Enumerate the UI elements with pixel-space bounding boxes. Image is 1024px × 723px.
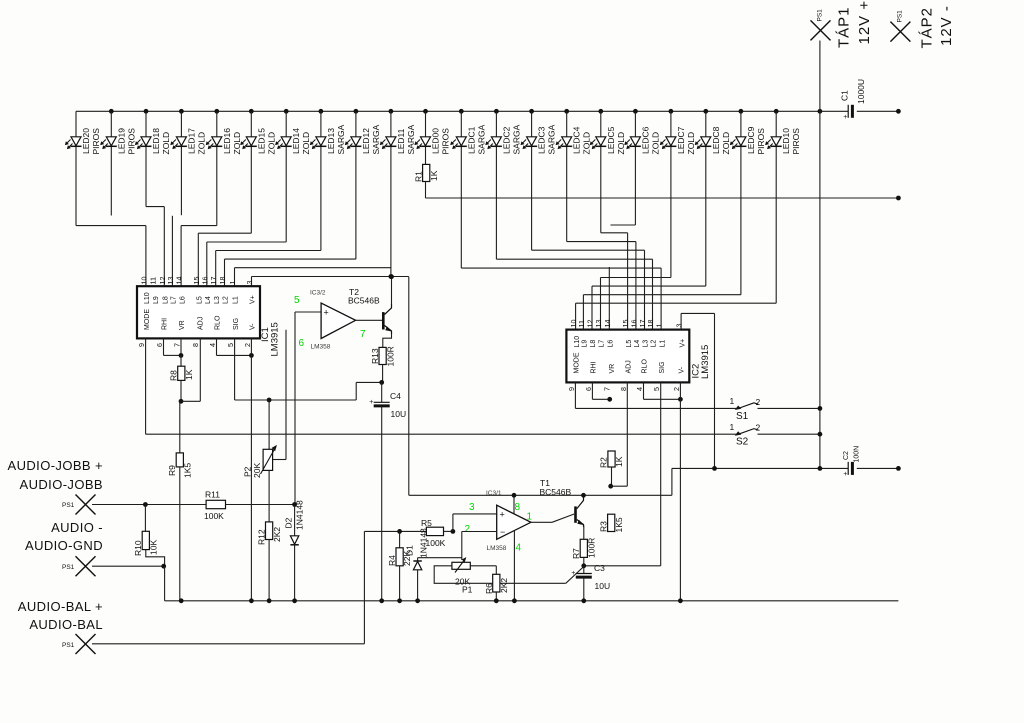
svg-text:LED11: LED11	[396, 128, 406, 154]
svg-text:RLO: RLO	[215, 315, 222, 330]
wire C4 to ground	[381, 406, 383, 601]
node R8-R9-ADJ	[179, 399, 184, 404]
wire LED17 column	[180, 111, 182, 215]
svg-text:D2: D2	[284, 517, 294, 528]
wire P1 right to R6	[470, 566, 496, 575]
svg-text:LEDC1: LEDC1	[466, 126, 476, 154]
svg-text:3: 3	[675, 324, 684, 328]
node D2 junction	[292, 502, 297, 507]
wire IC1 RLO jog	[217, 338, 250, 355]
svg-text:ZOLD: ZOLD	[686, 132, 696, 155]
svg-text:L8: L8	[163, 296, 170, 304]
svg-text:100N: 100N	[854, 446, 861, 463]
resistor R13 100R	[370, 346, 396, 366]
svg-text:7: 7	[603, 387, 612, 391]
svg-text:20K: 20K	[252, 463, 262, 478]
svg-text:AUDIO-GND: AUDIO-GND	[25, 538, 103, 553]
svg-text:10U: 10U	[595, 581, 611, 591]
wire R13 bottom	[382, 365, 384, 383]
LED LED15 ZOLD	[240, 128, 276, 155]
LED LED00 PIROS	[414, 128, 450, 155]
resistor R6 2K2	[484, 574, 509, 594]
svg-text:SARGA: SARGA	[476, 124, 486, 154]
svg-text:7: 7	[360, 329, 366, 340]
resistor R10 10K	[133, 531, 159, 556]
svg-text:AUDIO-BAL: AUDIO-BAL	[29, 617, 103, 632]
wire C3 top	[583, 566, 585, 574]
resistor R2 1K	[599, 451, 625, 468]
wire bal divider line	[364, 530, 453, 532]
label AUDIO-GND	[25, 520, 103, 553]
svg-text:10U: 10U	[391, 409, 407, 419]
svg-text:LEDC2: LEDC2	[501, 126, 511, 154]
svg-text:L3: L3	[643, 340, 650, 348]
transistor T2 BC546B	[348, 287, 392, 334]
svg-text:L8: L8	[590, 340, 597, 348]
svg-text:+: +	[369, 399, 373, 406]
wire LED16 column	[216, 111, 218, 225]
svg-text:1K5: 1K5	[614, 517, 624, 532]
svg-text:8: 8	[515, 502, 521, 513]
svg-text:100K: 100K	[204, 511, 224, 521]
svg-text:LEDC4: LEDC4	[572, 126, 582, 154]
wire ADJ jog IC1	[181, 338, 200, 401]
svg-text:ADJ: ADJ	[198, 317, 205, 330]
diode D1 1N4148	[405, 528, 429, 570]
node R13-C4-SIG	[379, 380, 384, 385]
wire LED10 column	[775, 111, 777, 303]
wire C3 to ground	[583, 577, 585, 600]
resistor R11 100K	[204, 490, 226, 522]
svg-text:13: 13	[594, 320, 603, 328]
svg-text:13: 13	[166, 277, 175, 285]
svg-text:RHI: RHI	[591, 361, 598, 373]
svg-text:LM358: LM358	[311, 344, 331, 351]
svg-text:18: 18	[218, 277, 227, 285]
resistor R8 1K	[169, 366, 195, 381]
diode D2 1N4148	[284, 500, 305, 545]
svg-text:5: 5	[226, 343, 235, 347]
wire IC1 pin14 riser	[181, 226, 217, 287]
wire IC1 pin16 riser	[207, 242, 286, 286]
svg-text:AUDIO-BAL +: AUDIO-BAL +	[18, 599, 103, 614]
svg-text:6: 6	[299, 338, 305, 349]
wire LEDC7 column	[670, 111, 672, 277]
svg-text:R10: R10	[133, 540, 143, 556]
wire IC1 pin15 riser	[198, 233, 251, 286]
svg-text:5: 5	[294, 295, 300, 306]
wire IC1 V+ pin3	[252, 277, 409, 287]
node R5 right	[451, 529, 456, 534]
wire IC2 SIG line	[584, 382, 661, 565]
wire audio-gnd line	[92, 565, 165, 567]
LED LED16 ZOLD	[206, 128, 242, 155]
svg-text:RHI: RHI	[162, 318, 169, 330]
svg-text:V-: V-	[679, 366, 686, 373]
svg-text:L4: L4	[205, 296, 212, 304]
svg-text:PIROS: PIROS	[791, 128, 801, 155]
svg-text:LED10: LED10	[781, 128, 791, 154]
svg-text:AUDIO -: AUDIO -	[51, 520, 103, 535]
wire TAP1 +12V vertical	[819, 41, 821, 469]
capacitor C2 100N	[843, 446, 861, 478]
svg-text:9: 9	[567, 387, 576, 391]
wire R12 to ground	[268, 540, 270, 601]
svg-text:4: 4	[208, 343, 217, 347]
svg-text:10K: 10K	[149, 540, 159, 555]
svg-text:2K2: 2K2	[272, 527, 282, 542]
svg-text:L2: L2	[223, 296, 230, 304]
svg-text:L1: L1	[659, 340, 666, 348]
svg-text:R2: R2	[599, 457, 609, 468]
svg-text:12V -: 12V -	[938, 5, 955, 46]
potentiometer P2 20K	[243, 445, 277, 478]
node IC1 RHI-VR	[179, 353, 184, 358]
svg-text:R13: R13	[370, 348, 380, 364]
wire P1 left feedback	[434, 566, 584, 584]
wire IC1 pin10 riser	[76, 226, 146, 287]
svg-text:PIROS: PIROS	[756, 128, 766, 155]
LED LEDC9 PIROS	[730, 126, 766, 154]
LED LED13 SARGA	[310, 124, 346, 154]
svg-text:14: 14	[603, 320, 612, 328]
wire V+ vertical x409	[408, 277, 410, 496]
wire R2 bottom	[611, 467, 613, 486]
node top bus junctions	[109, 109, 822, 114]
wire T1 emitter to R7	[583, 526, 585, 540]
svg-text:7: 7	[173, 343, 182, 347]
svg-text:6: 6	[584, 387, 593, 391]
resistor R1 1K	[414, 164, 440, 182]
svg-text:LM358: LM358	[487, 545, 507, 552]
LED LED10 PIROS	[765, 128, 801, 155]
node ground rail junctions	[179, 598, 683, 603]
svg-text:L6: L6	[608, 340, 615, 348]
svg-text:LM3915: LM3915	[700, 345, 711, 379]
svg-text:PIROS: PIROS	[126, 128, 136, 155]
wire IC2 V- to ground	[679, 382, 681, 600]
wire IC2 pin14 riser	[609, 225, 635, 330]
svg-text:LED00: LED00	[431, 128, 441, 154]
node R7-C3-SIG2	[581, 563, 586, 568]
svg-text:SARGA: SARGA	[406, 124, 416, 154]
label IC3/1	[486, 490, 502, 497]
resistor R12 2K2	[257, 522, 283, 545]
svg-text:2: 2	[243, 343, 252, 347]
wire op1 output	[531, 514, 574, 522]
wire LEDC6 column	[634, 111, 636, 225]
wire LED20 column	[75, 111, 77, 225]
svg-text:P2: P2	[243, 466, 253, 477]
wire R1 to line2	[425, 182, 427, 199]
wire IC2 pin15 riser	[601, 233, 628, 330]
wire IC2 pin11 riser	[583, 295, 741, 330]
wire V+ line y468	[672, 467, 899, 469]
svg-text:100K: 100K	[426, 538, 446, 548]
svg-text:PIROS: PIROS	[91, 128, 101, 155]
svg-text:BC546B: BC546B	[348, 296, 380, 306]
svg-text:R3: R3	[599, 521, 609, 532]
wire op1 -input	[462, 532, 497, 561]
wire op1 power bottom	[513, 531, 515, 601]
potentiometer P1 20K	[452, 557, 473, 594]
svg-text:L5: L5	[197, 296, 204, 304]
svg-text:V-: V-	[250, 323, 257, 330]
svg-text:R6: R6	[484, 583, 494, 594]
capacitor C3 10U	[571, 563, 610, 591]
svg-text:VR: VR	[179, 320, 186, 330]
LED driver IC2 LM3915	[566, 320, 711, 392]
LED LEDC5 ZOLD	[590, 126, 626, 154]
svg-text:R1: R1	[414, 171, 424, 182]
wire R6 to ground	[495, 592, 497, 601]
svg-text:1000U: 1000U	[856, 79, 866, 104]
wire IC2 ADJ jog	[611, 382, 628, 486]
node T2 collector on V+ line	[389, 274, 394, 279]
svg-text:C2: C2	[843, 451, 850, 460]
wire LED18 column	[145, 111, 147, 206]
resistor R9 1K5	[167, 453, 193, 478]
svg-text:D1: D1	[405, 545, 415, 556]
LED LEDC7 ZOLD	[660, 126, 696, 154]
svg-text:PIROS: PIROS	[441, 128, 451, 155]
svg-text:C3: C3	[594, 563, 605, 573]
svg-text:VR: VR	[609, 364, 616, 374]
wire IC1 pin12 riser	[146, 207, 164, 287]
svg-text:1K: 1K	[184, 369, 194, 380]
wire audio-bal line	[92, 531, 364, 643]
svg-text:ZOLD: ZOLD	[161, 132, 171, 155]
switch S2	[730, 422, 820, 448]
svg-text:+: +	[571, 570, 575, 577]
svg-text:RLO: RLO	[642, 359, 649, 374]
connector PS1 audio-bal	[62, 634, 96, 654]
wire LEDC4 column	[566, 111, 568, 241]
svg-text:L3: L3	[214, 296, 221, 304]
op-amp driver IC1 LM3915	[137, 277, 281, 357]
svg-text:1K: 1K	[429, 170, 439, 181]
svg-text:L2: L2	[651, 340, 658, 348]
svg-text:L10: L10	[144, 292, 151, 304]
wire LED14 column	[285, 111, 287, 242]
node R10 tap	[143, 502, 148, 507]
svg-text:L5: L5	[626, 340, 633, 348]
node V+ TAP1 tap	[818, 466, 823, 471]
wire P2 wiper jog	[273, 459, 286, 461]
svg-text:ZOLD: ZOLD	[616, 132, 626, 155]
wire IC2 RHI jog	[592, 382, 608, 399]
node IC2 RHI-VR	[607, 397, 612, 402]
wire LEDC8 column	[705, 111, 707, 286]
svg-text:LED15: LED15	[256, 128, 266, 154]
wire P2 top	[268, 400, 270, 449]
wire LED13 column	[320, 111, 322, 250]
svg-text:8: 8	[191, 343, 200, 347]
capacitor C1	[840, 79, 867, 121]
label TAP2 12V-	[919, 5, 956, 48]
wire IC1 V- to ground	[250, 338, 252, 600]
svg-text:1: 1	[655, 324, 664, 328]
node S1 to +12V	[818, 406, 823, 411]
wire IC2 pin18 riser	[496, 259, 652, 329]
svg-text:SARGA: SARGA	[336, 124, 346, 154]
svg-text:LED18: LED18	[151, 128, 161, 154]
svg-text:+: +	[324, 308, 329, 318]
wire LEDC2 column	[495, 111, 497, 259]
svg-text:S1: S1	[736, 411, 749, 422]
svg-text:R8: R8	[169, 370, 179, 381]
svg-text:LM3915: LM3915	[270, 322, 281, 356]
svg-text:PS1: PS1	[817, 9, 824, 22]
svg-text:R7: R7	[571, 548, 581, 559]
wire to ground rail	[164, 566, 166, 601]
node second line end stub	[896, 196, 901, 201]
svg-text:12V +: 12V +	[856, 0, 873, 45]
node R2-ADJ	[608, 484, 613, 489]
LED LED14 ZOLD	[275, 128, 311, 155]
svg-text:+: +	[843, 114, 847, 121]
connector PS1 TAP1	[811, 9, 831, 41]
svg-text:4: 4	[516, 543, 522, 554]
svg-text:3: 3	[245, 281, 254, 285]
svg-text:ZOLD: ZOLD	[266, 132, 276, 155]
connector PS1 TAP2	[890, 10, 910, 42]
svg-text:ZOLD: ZOLD	[582, 132, 592, 155]
wire LED12 column	[355, 111, 357, 259]
svg-text:ZOLD: ZOLD	[650, 132, 660, 155]
wire IC2 pin12 riser	[592, 286, 706, 330]
wire IC2 RLO jog	[644, 382, 679, 399]
wire P2 to R12	[268, 470, 270, 522]
label AUDIO-BAL	[18, 599, 103, 632]
wire second bus line	[426, 197, 899, 199]
wire IC2 MODE to S1	[575, 382, 736, 408]
svg-text:L1: L1	[233, 296, 240, 304]
svg-text:4: 4	[635, 387, 644, 391]
svg-text:1: 1	[228, 281, 237, 285]
resistor R3 1K5	[599, 514, 625, 532]
wire audio-jobb line	[92, 504, 295, 506]
wire C4 top	[381, 382, 383, 402]
resistor R4 22K	[387, 531, 412, 566]
svg-text:8: 8	[619, 387, 628, 391]
svg-text:17: 17	[209, 277, 218, 285]
wire IC1 RHI jog	[164, 338, 180, 355]
svg-text:LED13: LED13	[326, 128, 336, 154]
svg-text:LED20: LED20	[81, 128, 91, 154]
transistor T1 BC546B	[540, 478, 584, 527]
wire IC1 pin1 riser	[235, 268, 391, 287]
LED LEDC3 SARGA	[521, 124, 557, 154]
LED LEDC4 ZOLD	[556, 126, 592, 154]
svg-text:LED14: LED14	[291, 128, 301, 154]
svg-text:PS1: PS1	[897, 10, 904, 23]
svg-text:ADJ: ADJ	[626, 360, 633, 373]
wire LEDC9 column	[740, 111, 742, 294]
wire LED15 column	[250, 111, 252, 233]
wire IC2 pin10 riser	[576, 303, 777, 329]
svg-text:1: 1	[730, 422, 735, 432]
wire D2 top	[294, 505, 296, 536]
wire LEDC3 column	[531, 111, 533, 250]
LED LED18 ZOLD	[135, 128, 171, 155]
svg-text:ZOLD: ZOLD	[721, 132, 731, 155]
wire IC2 pin1 riser	[461, 268, 661, 330]
wire IC1 SIG line	[235, 338, 382, 400]
svg-text:L4: L4	[634, 340, 641, 348]
svg-text:V+: V+	[250, 295, 257, 304]
node V+ 468 end stub	[896, 466, 901, 471]
svg-text:5: 5	[652, 387, 661, 391]
wire LEDC5 column	[600, 111, 602, 233]
wire T2 emitter to R13	[383, 334, 392, 348]
node op1 V+ tap	[512, 493, 517, 498]
wire R10 column	[144, 505, 146, 532]
svg-text:TÁP2: TÁP2	[919, 7, 936, 49]
wire D1 to ground	[417, 570, 419, 601]
svg-text:L7: L7	[171, 296, 178, 304]
svg-text:L9: L9	[582, 340, 589, 348]
switch S1	[730, 396, 820, 422]
svg-text:LEDC3: LEDC3	[537, 126, 547, 154]
svg-text:C4: C4	[390, 391, 401, 401]
wire IC1 pin18 riser	[225, 259, 356, 286]
svg-text:PS1: PS1	[62, 564, 75, 571]
wire R7 bottom	[583, 557, 585, 565]
connector PS1 audio-gnd	[62, 556, 96, 576]
svg-text:R11: R11	[205, 490, 220, 500]
svg-text:AUDIO-JOBB +: AUDIO-JOBB +	[8, 458, 103, 473]
wire IC2 pin16 riser	[567, 242, 636, 330]
svg-text:P1: P1	[462, 585, 473, 595]
wire R4 to ground	[399, 566, 401, 601]
LED LEDC8 ZOLD	[695, 126, 731, 154]
svg-text:10: 10	[139, 277, 148, 285]
svg-text:2: 2	[756, 423, 761, 433]
svg-text:IC3/2: IC3/2	[310, 290, 326, 297]
svg-text:PS1: PS1	[62, 642, 75, 649]
svg-text:−: −	[500, 527, 505, 537]
wire IC3/2 -input column	[285, 330, 287, 460]
svg-text:3: 3	[469, 502, 475, 513]
svg-text:ZOLD: ZOLD	[301, 132, 311, 155]
svg-text:SARGA: SARGA	[371, 124, 381, 154]
svg-text:2K2: 2K2	[499, 578, 509, 593]
svg-text:16: 16	[200, 277, 209, 285]
wire R9 to ground	[179, 467, 181, 601]
wire R8 bottom	[180, 380, 182, 401]
node T1 collector	[581, 493, 586, 498]
label TAP1 12V+	[836, 0, 874, 48]
svg-text:6: 6	[155, 343, 164, 347]
svg-text:2: 2	[465, 524, 471, 535]
svg-text:SIG: SIG	[233, 318, 240, 330]
svg-text:1: 1	[527, 512, 533, 523]
wire IC1 pin17 riser	[216, 251, 321, 287]
LED LED11 SARGA	[380, 124, 416, 154]
svg-text:1K5: 1K5	[183, 463, 193, 478]
svg-text:1: 1	[730, 396, 735, 406]
node SIG1-R12 junction	[267, 398, 272, 403]
svg-text:LEDC7: LEDC7	[676, 126, 686, 154]
wire LED00 column	[425, 111, 427, 164]
wire T2 collector	[391, 277, 393, 305]
svg-text:100R: 100R	[587, 538, 597, 558]
capacitor C4 10U	[369, 391, 406, 419]
wire IC1 pin13 riser	[171, 216, 173, 286]
svg-text:R5: R5	[421, 518, 432, 528]
svg-text:L10: L10	[574, 336, 581, 348]
